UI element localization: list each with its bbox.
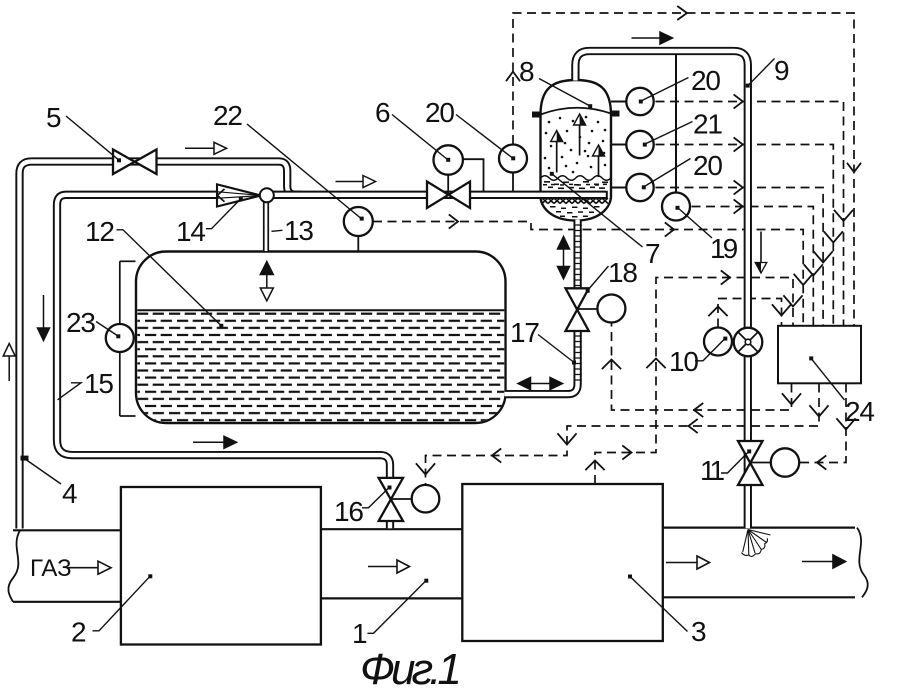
TANK 12 [136, 252, 506, 424]
svg-text:7: 7 [645, 238, 660, 269]
box 3 [462, 484, 663, 641]
leader 11 [721, 451, 749, 473]
valve 11 actuator link [751, 462, 771, 464]
flow arrow between box 2 and box 3 (open) [368, 560, 410, 573]
leader 5 [66, 116, 119, 160]
wavy liquid surface in vessel [541, 176, 611, 181]
control line D1 from gauge 20d up across top to box 24 [513, 13, 854, 325]
arrow right on D1 top row [678, 7, 687, 20]
leader 20a [641, 78, 689, 102]
svg-text:12: 12 [85, 216, 114, 247]
DASHED CONTROL NETWORK [373, 13, 854, 485]
gas pipe top edge [13, 529, 121, 531]
control line D7 from box 3 to box 24 [595, 278, 793, 485]
leader 19 [678, 208, 713, 239]
sensor 20b [626, 174, 653, 201]
leader 23 [96, 322, 118, 337]
tank liquid level line [137, 309, 504, 311]
arrow right on D4 [734, 181, 743, 194]
svg-text:16: 16 [334, 496, 363, 527]
hose tick marks [574, 225, 582, 380]
sensor 21 [626, 131, 653, 158]
leader 14 [206, 199, 241, 229]
LEADER LINES AND DOTS [27, 59, 845, 634]
dashed-line arrowheads (open chevrons) [417, 7, 861, 475]
valve 18 [566, 288, 589, 331]
svg-text:24: 24 [845, 396, 874, 427]
gauge 20d stem [512, 172, 514, 191]
box 2 [121, 487, 321, 645]
arrow left on D9b row y455 [492, 449, 501, 462]
leader 16 [362, 487, 389, 508]
tank liquid hatch [137, 312, 504, 422]
svg-text:Фиг.1: Фиг.1 [360, 645, 458, 690]
svg-text:6: 6 [375, 97, 390, 128]
vessel shell [541, 80, 612, 221]
pipe 17 from tank outlet to valve 18 [505, 332, 578, 394]
control line D2 from sensor 20a to box 24 [641, 102, 844, 326]
sensor stub to 20a [611, 101, 627, 103]
control line D5 from sensor 19 to box 24 [677, 207, 813, 326]
valve 16 actuator link [391, 498, 412, 500]
flow arrow after ГАЗ (open) [67, 561, 111, 574]
gas pipe right break [857, 528, 868, 598]
leader 17 [538, 335, 574, 363]
valve 16 [379, 478, 403, 521]
svg-text:3: 3 [691, 616, 706, 647]
leader 13 [272, 230, 283, 231]
svg-text:4: 4 [62, 478, 77, 509]
arrow right on D6 second segment [666, 223, 675, 236]
arrow right on D7 row y452 [623, 446, 632, 459]
svg-text:8: 8 [519, 56, 534, 87]
control line D3 from sensor 21 to box 24 [641, 145, 833, 326]
svg-text:21: 21 [693, 109, 722, 140]
gas-space dots [544, 116, 607, 174]
arrow right on D5 [734, 200, 743, 213]
pipe 15: suction line from ejector down and to valve 16 [57, 195, 390, 479]
arrow up on D8 from gauge 10 [709, 307, 727, 316]
arrow down on D4 column [814, 252, 832, 263]
actuator of valve 16 [412, 485, 440, 513]
leader 6 [392, 115, 448, 160]
leader 18 [588, 266, 609, 291]
arrow down on D9b column x567 [558, 434, 576, 445]
arrow up on D1 [507, 72, 520, 81]
control line D8 from gauge 10 to box 24 [718, 299, 782, 328]
svg-text:9: 9 [774, 55, 789, 86]
actuator of valve 18 [597, 295, 625, 323]
spray at pipe 9 outlet into gas pipe [742, 530, 771, 557]
leader 12 [117, 230, 222, 326]
arrow left on D9a [694, 404, 703, 417]
leader 4 [27, 460, 62, 484]
svg-text:5: 5 [46, 102, 61, 133]
VESSEL 7/8 (separator column) [532, 80, 620, 221]
svg-text:23: 23 [66, 307, 95, 338]
sensor stub to 20b [611, 187, 627, 189]
control line D9c from box 24 to valve 11 actuator [800, 384, 846, 463]
leader 9 [749, 59, 775, 86]
left head lug [532, 112, 541, 118]
svg-text:18: 18 [608, 257, 637, 288]
svg-text:11: 11 [700, 455, 724, 486]
leader 21 [645, 122, 693, 145]
svg-text:14: 14 [176, 216, 205, 247]
leader 10 [695, 339, 725, 361]
pipe 9: vessel overhead line down to gas pipe [575, 51, 747, 528]
gauge 10 [704, 328, 732, 356]
valve 11 [738, 441, 763, 485]
svg-text:17: 17 [510, 317, 539, 348]
leader 20b [644, 159, 691, 188]
internal arrow 3 [593, 145, 605, 177]
cross-hatch sludge band [542, 198, 608, 204]
leader 2 [93, 576, 151, 631]
arrow down on D1 right column [848, 164, 861, 173]
actuator of valve 11 [771, 448, 799, 476]
double arrow at tank inlet nozzle [260, 262, 273, 301]
arrow down on D9b to valve 16 actuator [417, 464, 435, 475]
stub from sensor 22 to tank [357, 230, 359, 251]
control line D9a from box 24 to valve 18 actuator [612, 323, 792, 411]
svg-text:19: 19 [710, 233, 738, 264]
bottom dome speckle [550, 206, 600, 218]
sensor 22 [344, 207, 373, 236]
dished head seam 8 [541, 108, 612, 115]
arrow right on D6 first segment [450, 215, 459, 228]
valve 6 [427, 182, 470, 209]
arrow down on D7 column into box [784, 296, 802, 307]
liquid speckle band [543, 181, 608, 189]
down arrow between risers (solid) [38, 295, 50, 341]
arrow up on D9a to valve 18 actuator [603, 360, 621, 369]
svg-text:20: 20 [425, 97, 454, 128]
svg-text:10: 10 [669, 346, 698, 377]
gas pipe left break [8, 530, 20, 602]
svg-text:2: 2 [71, 617, 86, 648]
up arrow left of pipe 4 (open) [3, 344, 15, 382]
arrow left on D9c to valve 11 actuator [817, 456, 826, 469]
flow arrow right of box 3 (open) [666, 556, 710, 569]
valve 5 [113, 150, 157, 175]
ball valve on pipe 9 [734, 328, 763, 357]
leader 7 [552, 174, 643, 247]
valve 18 actuator link [578, 308, 599, 310]
svg-text:22: 22 [213, 100, 242, 131]
arrow up on D7 stub from box 3 [586, 461, 604, 470]
hose from vessel drain to valve 18 [573, 220, 581, 289]
svg-text:20: 20 [691, 65, 720, 96]
arrow down on D5 column [804, 265, 822, 276]
leader 8 [539, 79, 590, 106]
valve 6 sensing L-line [463, 159, 484, 191]
arrow right on D7 row y277 [722, 271, 731, 284]
junction node 13 [260, 188, 274, 202]
svg-text:20: 20 [693, 150, 722, 181]
valve 6 actuator stem [447, 175, 449, 195]
arrow down on D6 column [794, 275, 812, 286]
leader 22 [247, 124, 361, 218]
ejector 14 [217, 184, 261, 206]
internal arrow 1 [551, 131, 563, 173]
arrow left on D9b row y426 [689, 420, 698, 433]
box 24 (control unit) [778, 326, 861, 384]
control line D6 from sensor 22 to box 24 [373, 222, 803, 326]
svg-text:13: 13 [284, 215, 313, 246]
level gauge bracket with sensor 23 [120, 261, 136, 416]
svg-text:15: 15 [84, 368, 113, 399]
arrow right on D3 [734, 138, 743, 151]
arrow down on D9b below box [810, 406, 828, 417]
sensor 20a [626, 88, 653, 115]
feed pipe from junction through valve 6 into vessel [273, 191, 607, 199]
solid down arrow from D6 row to D7 row near pipe 9 [755, 232, 767, 274]
actuator 20c on valve 6 [434, 145, 463, 174]
arrow down on D3 column [824, 232, 842, 243]
flow arrow before valve 6 (open) [336, 176, 376, 188]
control line D9b from box 24 to valve 16 actuator [426, 384, 820, 485]
internal arrow 2 [574, 114, 586, 156]
sensor stub to 21 [611, 144, 627, 146]
arrow up on D7 column x656 [647, 359, 665, 368]
double arrow at tank outlet [518, 378, 563, 390]
leader 15 [58, 383, 82, 400]
gauge 20d [499, 145, 527, 173]
GAS PIPELINE (bottom band) [8, 528, 867, 602]
flow arrow after valve 5 (open) [185, 142, 227, 154]
leader 24 [811, 358, 845, 400]
arrow down on D9c below box [837, 419, 855, 430]
stub below valve 16 into gas pipe [386, 521, 394, 529]
arrow right on D2 [734, 95, 743, 108]
sensor 23 [106, 324, 134, 352]
leader 1 [368, 581, 427, 634]
pipe 4 / valve 5 line: riser, top run, elbow into mixing line [20, 162, 303, 529]
right head lug [611, 111, 620, 117]
arrow down on D9a below box [783, 394, 801, 405]
line 13 from junction down to tank [263, 201, 269, 251]
arrow down on D8 column into box [773, 305, 791, 316]
gas pipe bottom edge [13, 601, 121, 603]
leader 3 [630, 577, 688, 632]
leader 20 (gauge 20d) [456, 115, 513, 159]
flow arrow far right (solid) [802, 555, 846, 568]
svg-text:ГАЗ: ГАЗ [30, 555, 72, 582]
leader end dots [21, 84, 814, 583]
arrow down on D2 column [835, 211, 853, 222]
gauge line from overhead pipe down to sensor 19 [675, 54, 677, 194]
control line D4 from sensor 20b to box 24 [641, 188, 823, 326]
flow arrow on overhead pipe (solid) [632, 32, 673, 44]
tank 12 shell [136, 252, 506, 424]
flow arrow on pipe 15 (solid) [193, 436, 237, 448]
double arrow at vessel drain [558, 237, 570, 279]
sensor 19 [662, 193, 690, 221]
